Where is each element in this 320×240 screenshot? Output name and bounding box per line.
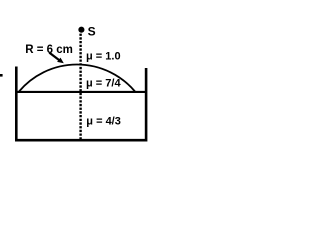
left edge tick [0, 74, 3, 77]
water surface line [18, 91, 146, 93]
leader arrowhead [57, 58, 64, 64]
svg-text:μ = 7/4: μ = 7/4 [86, 78, 121, 90]
container walls and bottom [16, 67, 146, 141]
curved interface arc R = 6 cm [19, 65, 135, 92]
svg-text:S: S [88, 24, 96, 38]
svg-text:R = 6 cm: R = 6 cm [25, 44, 73, 56]
svg-text:μ = 4/3: μ = 4/3 [86, 116, 121, 128]
point source S dot [78, 27, 84, 33]
svg-text:μ = 1.0: μ = 1.0 [86, 51, 121, 63]
optical axis (dotted vertical line) [79, 34, 81, 140]
leader line [49, 53, 59, 61]
